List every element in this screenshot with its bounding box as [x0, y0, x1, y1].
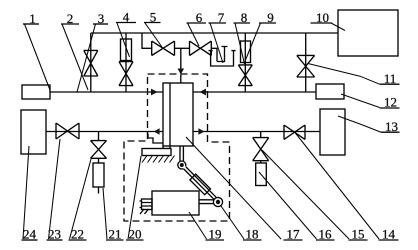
wire branch x=90.8	[90, 33, 92, 92]
wire inlet pipe y=92 left	[50, 91, 163, 93]
svg-text:19: 19	[209, 227, 222, 242]
svg-text:13: 13	[385, 119, 398, 134]
underline 24	[22, 239, 38, 241]
svg-text:20: 20	[129, 227, 142, 242]
underline 15	[349, 239, 368, 241]
underline 1	[23, 23, 39, 25]
gauge 4	[121, 39, 132, 61]
valve 6	[190, 41, 212, 55]
svg-text:21: 21	[109, 227, 122, 242]
underline 2	[61, 23, 79, 25]
svg-text:17: 17	[287, 227, 301, 242]
wire outlet pipe y=131.5 right	[194, 131, 321, 133]
valve 16	[253, 138, 269, 161]
svg-text:14: 14	[382, 227, 396, 242]
underline 20	[126, 239, 144, 241]
underline 23	[47, 239, 63, 241]
svg-text:7: 7	[218, 10, 225, 25]
motor mount bracket	[140, 199, 153, 214]
valve 23	[56, 123, 79, 139]
svg-text:4: 4	[123, 10, 130, 25]
wire feed to chamber top	[180, 48, 182, 69]
leader 17	[186, 137, 281, 239]
test chamber	[163, 83, 193, 146]
svg-text:24: 24	[23, 227, 37, 242]
leader 19	[189, 212, 207, 239]
underline 8	[234, 22, 251, 24]
wire outlet pipe y=131.5 left	[46, 131, 163, 133]
underline 11	[380, 83, 400, 85]
leader 14	[295, 133, 379, 240]
leader 1	[25, 24, 51, 90]
underline 22	[69, 239, 87, 241]
leader 3	[77, 24, 96, 92]
chamber inner wall	[169, 83, 171, 146]
svg-text:23: 23	[48, 227, 61, 242]
underline 9	[259, 22, 276, 24]
underline 4	[116, 22, 136, 24]
valve 15	[284, 125, 305, 139]
valve 3	[119, 62, 133, 86]
leader 5	[145, 23, 162, 47]
wire branch x=260.7	[260, 132, 262, 138]
svg-text:2: 2	[67, 11, 74, 26]
leader 22	[70, 159, 92, 239]
leader 23	[49, 139, 61, 239]
valve 11	[297, 55, 315, 77]
box 13	[320, 109, 345, 155]
underline 3	[93, 23, 108, 25]
arrow into chamber left top	[151, 89, 158, 96]
leader 15	[262, 150, 349, 239]
ground hatching	[142, 156, 175, 163]
underline 7	[209, 22, 227, 24]
underline 12	[380, 107, 400, 109]
support step bracket	[148, 134, 163, 144]
piston rod	[180, 146, 183, 161]
svg-text:12: 12	[384, 95, 397, 110]
box 24	[21, 110, 46, 154]
wire main gas pipe y=33	[91, 32, 338, 34]
wire stub under gauge 21	[98, 187, 100, 194]
underline 17	[284, 239, 303, 241]
underline 13	[381, 131, 400, 133]
crank pin circle	[213, 197, 222, 206]
svg-text:10: 10	[316, 10, 329, 25]
leader 8	[235, 23, 245, 64]
leader 6	[188, 23, 200, 46]
svg-text:1: 1	[29, 11, 36, 26]
motor box 19	[152, 191, 199, 215]
bubbler 7	[209, 47, 236, 67]
svg-text:22: 22	[71, 227, 84, 242]
svg-text:18: 18	[246, 227, 259, 242]
gauge 21	[93, 163, 104, 187]
wire between valves 5 and 6	[175, 47, 190, 49]
leader 2	[62, 24, 88, 90]
gauge 9	[241, 41, 251, 63]
connecting rod 18	[184, 167, 217, 200]
leader 21	[103, 188, 107, 239]
box 1	[22, 85, 50, 99]
leader 9	[246, 23, 261, 60]
box 12	[316, 84, 344, 99]
valve 8	[238, 65, 252, 86]
arrow out of chamber right bottom	[198, 128, 204, 135]
leader 13	[338, 116, 381, 132]
wire valve 22 to gauge 21	[98, 158, 100, 163]
wire inlet pipe y=92 right	[194, 91, 317, 93]
svg-text:8: 8	[241, 10, 248, 25]
leader 18	[221, 206, 244, 239]
valve 5	[152, 41, 175, 55]
leader 10	[331, 23, 345, 31]
wire branch x=126	[125, 33, 127, 92]
arrow down into chamber	[178, 69, 185, 75]
leader 16	[259, 172, 317, 239]
svg-text:3: 3	[98, 11, 105, 26]
svg-text:9: 9	[267, 10, 274, 25]
leader 24	[23, 146, 29, 239]
arrow out of chamber left bottom	[154, 128, 160, 135]
underline 10	[311, 22, 333, 24]
wire drop to valve 5	[142, 33, 152, 48]
leader 12	[341, 94, 380, 108]
underline 18	[243, 239, 262, 241]
wire valve 16 to gauge 17	[260, 161, 262, 163]
valve 2	[84, 50, 98, 76]
svg-text:15: 15	[352, 227, 365, 242]
motor shaft	[199, 200, 214, 204]
svg-text:11: 11	[384, 71, 397, 86]
arrow into chamber right top	[199, 89, 206, 96]
underline 5	[144, 22, 161, 24]
fixed base bar	[142, 149, 171, 156]
valve 22	[91, 141, 107, 159]
wire branch x=305.7 valve 11	[305, 33, 307, 92]
underline 14	[379, 239, 399, 241]
box 10	[338, 10, 398, 56]
leader 7	[210, 23, 223, 63]
wire branch x=98.5	[98, 132, 100, 141]
svg-text:16: 16	[319, 227, 333, 242]
svg-text:6: 6	[196, 10, 203, 25]
underline 21	[106, 239, 124, 241]
leader 11	[308, 64, 380, 85]
underline 6	[187, 22, 207, 24]
leader 4	[117, 23, 130, 57]
wire branch x=245.3	[244, 33, 246, 92]
gauge 17	[256, 163, 267, 186]
leader 20	[128, 156, 141, 239]
underline 19	[206, 239, 225, 241]
wire valve 6 to bubbler	[211, 48, 217, 61]
pivot pin circle	[178, 161, 186, 169]
svg-text:5: 5	[150, 10, 157, 25]
underline 16	[316, 239, 335, 241]
dashed enclosure 20	[124, 74, 230, 221]
